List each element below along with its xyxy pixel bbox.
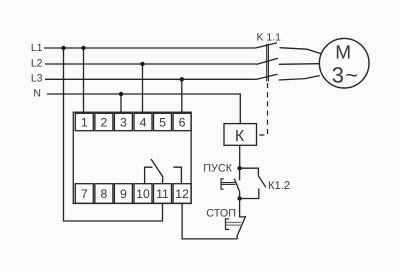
svg-text:M: M	[335, 42, 351, 63]
svg-text:N: N	[33, 88, 41, 100]
svg-text:4: 4	[140, 116, 147, 130]
svg-text:11: 11	[156, 187, 169, 201]
svg-text:10: 10	[136, 187, 150, 201]
svg-text:12: 12	[175, 187, 189, 201]
svg-text:3: 3	[120, 116, 127, 130]
svg-text:К: К	[235, 128, 245, 145]
svg-text:ПУСК: ПУСК	[203, 163, 232, 175]
svg-text:5: 5	[159, 116, 166, 130]
svg-text:8: 8	[100, 187, 107, 201]
svg-text:L1: L1	[31, 42, 43, 54]
svg-text:K 1.1: K 1.1	[257, 32, 282, 44]
svg-text:К1.2: К1.2	[268, 180, 290, 192]
svg-text:L2: L2	[31, 58, 43, 70]
svg-text:~: ~	[345, 63, 358, 88]
svg-text:L3: L3	[31, 72, 43, 84]
svg-text:2: 2	[100, 116, 107, 130]
svg-text:9: 9	[120, 187, 127, 201]
svg-text:7: 7	[81, 187, 88, 201]
svg-text:СТОП: СТОП	[206, 207, 236, 219]
svg-text:1: 1	[81, 116, 88, 130]
svg-text:3: 3	[332, 62, 344, 87]
svg-text:6: 6	[179, 116, 186, 130]
